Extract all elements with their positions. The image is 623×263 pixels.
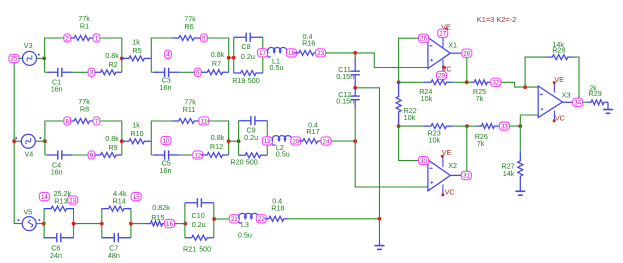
node Q junction ground bbox=[378, 217, 382, 221]
resistor R12 bbox=[201, 153, 229, 158]
wire R27 to ground bbox=[519, 185, 521, 191]
svg-text:24: 24 bbox=[323, 138, 330, 145]
svg-text:10k: 10k bbox=[404, 113, 416, 122]
label X1 bbox=[448, 40, 457, 49]
node 32 bbox=[491, 78, 501, 86]
wire R26 wire bbox=[467, 125, 477, 127]
node 28 bbox=[462, 49, 472, 57]
node 5 bbox=[201, 34, 208, 42]
svg-text:17: 17 bbox=[259, 50, 266, 57]
wire X1 output bbox=[450, 52, 461, 54]
svg-text:21: 21 bbox=[231, 216, 238, 223]
node 6 bbox=[194, 68, 201, 76]
resistor R27 bbox=[518, 152, 523, 185]
wire block4 to C9 block bbox=[229, 140, 239, 142]
svg-text:0.5u: 0.5u bbox=[238, 230, 252, 239]
resistor R9 bbox=[95, 153, 122, 158]
wire node32 to X3 minus bbox=[501, 82, 538, 87]
label L1 bbox=[272, 57, 280, 66]
capacitor C4 bbox=[48, 150, 73, 159]
svg-text:15: 15 bbox=[133, 194, 140, 201]
node 3 bbox=[88, 68, 95, 76]
wire V3 to block1 bbox=[37, 57, 45, 59]
label R18 bbox=[271, 204, 284, 213]
label R9 value 0.8k bbox=[105, 134, 119, 143]
capacitor C10 bbox=[185, 198, 214, 207]
label C6 bbox=[51, 244, 60, 253]
label C7 bbox=[109, 244, 118, 253]
label X3 bbox=[562, 91, 571, 100]
label R13 value 25.2k bbox=[54, 189, 72, 198]
label C3 value 16n bbox=[160, 83, 172, 92]
svg-text:V3: V3 bbox=[24, 41, 33, 50]
wire C11C12 mid to ground rail bbox=[355, 88, 379, 219]
svg-text:R20: R20 bbox=[230, 158, 243, 167]
wire blockB to R15 bbox=[131, 223, 147, 225]
label R28 value 14k bbox=[552, 40, 564, 49]
svg-text:R28: R28 bbox=[552, 45, 565, 54]
source V4 bbox=[15, 134, 41, 148]
resistor R14 bbox=[102, 206, 131, 211]
capacitor C5 bbox=[154, 150, 179, 159]
wire node34 to R29 bbox=[583, 101, 587, 103]
node J junction C9 left bbox=[237, 139, 241, 143]
wire node33 to junction bbox=[510, 125, 521, 127]
label VC X2 bbox=[445, 188, 455, 197]
label R27 bbox=[501, 162, 514, 171]
resistor R15 bbox=[147, 221, 167, 226]
label R16 bbox=[302, 38, 315, 47]
resistor R7 bbox=[201, 70, 229, 75]
wire block2 row1 frame bbox=[151, 38, 228, 72]
capacitor C6 bbox=[44, 233, 73, 242]
label V5 bbox=[24, 207, 33, 216]
label R25 value 7k bbox=[476, 94, 484, 103]
resistor R11 bbox=[173, 119, 201, 124]
node 19 bbox=[262, 137, 272, 145]
svg-text:32: 32 bbox=[492, 80, 499, 87]
wire R25 wire bbox=[467, 81, 471, 83]
label R24 value 10k bbox=[421, 94, 433, 103]
resistor R23 bbox=[424, 124, 453, 129]
node 29 bbox=[437, 71, 447, 79]
label R10 value 1k bbox=[132, 121, 140, 130]
svg-text:0.8k: 0.8k bbox=[105, 51, 119, 60]
label R19 value 500 bbox=[248, 76, 260, 85]
label VE X2 bbox=[442, 148, 452, 157]
svg-text:19: 19 bbox=[264, 138, 271, 145]
label R14 bbox=[113, 196, 126, 205]
svg-text:16n: 16n bbox=[160, 83, 172, 92]
resistor R22 bbox=[396, 82, 401, 126]
svg-text:33: 33 bbox=[501, 123, 508, 130]
label K1 K2 gains bbox=[477, 15, 516, 24]
label R12 value 0.8k bbox=[211, 133, 225, 142]
node N junction blockB right bbox=[129, 222, 133, 226]
svg-text:9: 9 bbox=[90, 152, 94, 159]
label R24 bbox=[419, 87, 432, 96]
label C1 bbox=[52, 77, 61, 86]
resistor R10 bbox=[122, 139, 152, 144]
svg-text:26: 26 bbox=[420, 36, 427, 43]
wire R23 rail bbox=[399, 125, 467, 127]
svg-text:VE: VE bbox=[554, 75, 564, 84]
node S junction rail left bbox=[397, 80, 401, 84]
label VE X3 bbox=[554, 75, 564, 84]
label C11 value 0.15n bbox=[336, 72, 354, 81]
svg-text:R7: R7 bbox=[212, 59, 221, 68]
svg-text:16: 16 bbox=[166, 221, 173, 228]
svg-text:R10: R10 bbox=[130, 129, 143, 138]
wire block1 row1 frame bbox=[45, 38, 122, 72]
svg-text:10: 10 bbox=[163, 138, 170, 145]
label R15 value 0.82k bbox=[152, 203, 170, 212]
node B junction block1 right bbox=[120, 57, 124, 61]
wire blockA frame bbox=[44, 209, 73, 238]
svg-text:34: 34 bbox=[574, 100, 581, 107]
wire block4 row2 top right bbox=[207, 120, 229, 122]
label R5 value 1k bbox=[132, 38, 140, 47]
resistor R19 bbox=[234, 71, 263, 76]
label R11 value 77k bbox=[184, 98, 196, 107]
resistor R5 bbox=[122, 56, 152, 61]
label R11 bbox=[183, 105, 196, 114]
wire block4 row2 frame bbox=[151, 121, 228, 155]
wire X2 output bbox=[450, 174, 461, 176]
wire node28 down to rail bbox=[466, 58, 468, 83]
node D junction C8 left bbox=[232, 56, 236, 60]
svg-text:R2: R2 bbox=[108, 60, 117, 69]
label VC X3 bbox=[555, 113, 565, 122]
node 7 bbox=[93, 117, 100, 125]
label R29 value 2k bbox=[589, 83, 597, 92]
svg-text:R19: R19 bbox=[232, 76, 245, 85]
node 13 bbox=[68, 196, 78, 204]
svg-text:10k: 10k bbox=[429, 136, 441, 145]
wire C10 to node21 bbox=[214, 218, 229, 220]
wire V5 to blockA bbox=[36, 223, 44, 225]
node T junction X1 out bbox=[465, 80, 469, 84]
capacitor C1 bbox=[48, 68, 73, 77]
svg-text:R11: R11 bbox=[183, 105, 196, 114]
svg-text:R21: R21 bbox=[183, 245, 196, 254]
node 9 bbox=[88, 151, 95, 159]
svg-text:0.2u: 0.2u bbox=[241, 52, 255, 61]
wire block1 row1 bottom bbox=[45, 71, 89, 73]
pin VE X3 bbox=[553, 81, 556, 92]
node 17 bbox=[258, 49, 268, 57]
svg-text:27: 27 bbox=[439, 31, 446, 38]
label R23 value 10k bbox=[429, 136, 441, 145]
node A junction V3 bbox=[42, 57, 46, 61]
resistor R20 bbox=[239, 153, 268, 158]
wire block3 row2 bottom bbox=[45, 154, 89, 156]
wire node25 to V3 bbox=[19, 57, 23, 59]
svg-text:5: 5 bbox=[202, 35, 206, 42]
label R12 bbox=[210, 142, 223, 151]
wire node23 to X1 bbox=[326, 53, 428, 68]
label R28 bbox=[552, 45, 565, 54]
label R16 value 0.4 bbox=[303, 32, 313, 41]
label R18 value 0.4 bbox=[272, 196, 282, 205]
label R20 value 500 bbox=[246, 158, 258, 167]
label R22 bbox=[404, 106, 417, 115]
node C junction block2 right bbox=[227, 56, 231, 60]
wire C10 block frame bbox=[185, 203, 214, 238]
wire node26 to R24 rail bbox=[399, 38, 420, 82]
node 18 bbox=[287, 49, 297, 57]
node 2 bubble bbox=[64, 34, 71, 42]
svg-text:0.5u: 0.5u bbox=[270, 63, 284, 72]
label C9 bbox=[246, 125, 255, 134]
wire node22 to ground junction bbox=[288, 218, 380, 220]
node 12 bbox=[193, 151, 203, 159]
label C9 value 0.2u bbox=[244, 133, 258, 142]
label R8 value 77k bbox=[78, 97, 90, 106]
wire node31 up to rail bbox=[466, 126, 468, 171]
op-amp X2 bbox=[428, 160, 450, 191]
label R25 bbox=[473, 87, 486, 96]
node 26 bbox=[419, 34, 429, 42]
pin VC X1 bbox=[443, 60, 446, 72]
svg-text:R12: R12 bbox=[210, 142, 223, 151]
wire V to node30 bbox=[399, 126, 420, 160]
svg-text:6: 6 bbox=[196, 70, 200, 77]
resistor R24 bbox=[424, 80, 453, 85]
svg-text:14k: 14k bbox=[503, 169, 515, 178]
wire ground stem bbox=[379, 219, 381, 239]
label V3 bbox=[24, 41, 33, 50]
label R9 bbox=[108, 143, 117, 152]
node 31 bbox=[461, 171, 471, 179]
resistor R18 bbox=[265, 216, 289, 221]
svg-text:VC: VC bbox=[555, 113, 565, 122]
svg-text:R1: R1 bbox=[80, 22, 89, 31]
node P junction C10 right bbox=[212, 217, 216, 221]
label R13 bbox=[54, 196, 67, 205]
wire blockA to blockB bbox=[74, 223, 102, 225]
label L1 value 0.5u bbox=[270, 63, 284, 72]
svg-text:24n: 24n bbox=[50, 251, 62, 260]
label X2 bbox=[448, 161, 457, 170]
svg-text:18: 18 bbox=[288, 50, 295, 57]
node 23 bbox=[316, 49, 326, 57]
svg-text:R18: R18 bbox=[271, 204, 284, 213]
svg-text:0.5u: 0.5u bbox=[276, 149, 290, 158]
svg-text:R17: R17 bbox=[306, 127, 319, 136]
ground GND2 bbox=[515, 191, 525, 195]
ground GND3 bbox=[603, 110, 613, 114]
capacitor C12 bbox=[351, 88, 360, 108]
capacitor C9 bbox=[239, 116, 268, 125]
resistor R6 bbox=[173, 36, 201, 41]
node 25 bbox=[9, 54, 19, 62]
svg-text:20: 20 bbox=[292, 138, 299, 145]
svg-text:0.8k: 0.8k bbox=[211, 133, 225, 142]
svg-text:7k: 7k bbox=[476, 94, 484, 103]
node 22 bbox=[256, 215, 266, 223]
label L3 bbox=[241, 220, 249, 229]
wire K to X2 plus bbox=[355, 141, 428, 187]
node I junction block4 right bbox=[227, 139, 231, 143]
node 21 bbox=[229, 215, 239, 223]
label C4 bbox=[52, 160, 61, 169]
svg-text:0.8k: 0.8k bbox=[105, 134, 119, 143]
node 8 bbox=[64, 117, 71, 125]
node F junction rail V4 bbox=[12, 139, 16, 143]
svg-text:2: 2 bbox=[65, 35, 69, 42]
wire rail to V4 bbox=[14, 140, 21, 142]
label L2 value 0.5u bbox=[276, 149, 290, 158]
node V junction R23 left bbox=[397, 124, 401, 128]
wire blockB frame bbox=[102, 209, 131, 238]
inductor L2 bbox=[272, 136, 292, 146]
wire R24 rail bbox=[399, 81, 467, 83]
svg-text:7k: 7k bbox=[477, 139, 485, 148]
svg-text:0.15n: 0.15n bbox=[336, 72, 354, 81]
resistor R28 bbox=[547, 55, 574, 60]
label R15 bbox=[151, 213, 164, 222]
resistor R17 bbox=[299, 139, 322, 144]
svg-text:23: 23 bbox=[317, 50, 324, 57]
resistor R2 bbox=[95, 70, 122, 75]
label VE X1 bbox=[441, 22, 451, 31]
svg-text:48n: 48n bbox=[108, 251, 120, 260]
svg-text:16n: 16n bbox=[51, 84, 63, 93]
node K junction C12 bottom bbox=[353, 139, 357, 143]
wire block2 row1 bottom bbox=[151, 71, 195, 73]
svg-text:R14: R14 bbox=[113, 196, 126, 205]
op-amp X3 bbox=[538, 86, 562, 118]
node L junction V5 right bbox=[42, 222, 46, 226]
svg-text:K1=3 K2=-2: K1=3 K2=-2 bbox=[477, 15, 516, 24]
resistor R8 bbox=[70, 119, 95, 124]
label R6 value 77k bbox=[184, 15, 196, 24]
label R20 bbox=[230, 158, 243, 167]
label R6 bbox=[184, 22, 193, 31]
svg-text:0.82k: 0.82k bbox=[152, 203, 170, 212]
svg-text:0.2u: 0.2u bbox=[244, 133, 258, 142]
resistor R26 bbox=[477, 124, 500, 129]
svg-text:X3: X3 bbox=[562, 91, 571, 100]
label VC X1 bbox=[442, 64, 452, 73]
wire to X3 plus bbox=[520, 115, 538, 126]
svg-text:R9: R9 bbox=[108, 143, 117, 152]
label R27 value 14k bbox=[503, 169, 515, 178]
svg-text:R13: R13 bbox=[54, 196, 67, 205]
inductor L1 bbox=[267, 47, 287, 57]
label C5 value 16n bbox=[160, 166, 172, 175]
node 34 bbox=[573, 98, 583, 106]
wire X3 output bbox=[563, 101, 573, 103]
node 14 bbox=[39, 193, 49, 201]
node 15 bbox=[131, 193, 141, 201]
wire block4 row2 bottom bbox=[151, 154, 195, 156]
label R5 bbox=[132, 46, 141, 55]
wire block2 row1 top right bbox=[207, 37, 229, 39]
node 24 bbox=[321, 137, 331, 145]
node X junction R27 top bbox=[518, 124, 522, 128]
svg-text:V4: V4 bbox=[25, 150, 34, 159]
svg-text:C10: C10 bbox=[192, 211, 205, 220]
label R1 bbox=[80, 22, 89, 31]
svg-text:C8: C8 bbox=[241, 42, 250, 51]
wire input rail left bbox=[14, 63, 22, 224]
label R7 bbox=[212, 59, 221, 68]
label R21 value 500 bbox=[199, 245, 211, 254]
svg-text:V5: V5 bbox=[24, 207, 33, 216]
wire below C12 bbox=[354, 108, 356, 141]
pin VC X3 bbox=[553, 111, 556, 123]
wire block2 to C8 block bbox=[229, 57, 234, 59]
svg-text:13: 13 bbox=[69, 197, 76, 204]
svg-text:R29: R29 bbox=[589, 89, 602, 98]
wire node24 to C12 junction bbox=[331, 140, 355, 142]
wire above C11 bbox=[354, 53, 356, 60]
node 1 bbox=[93, 34, 100, 42]
label C12 value 0.15n bbox=[336, 97, 354, 106]
label C11 bbox=[338, 65, 351, 74]
wire R29 to ground bbox=[607, 102, 609, 109]
svg-text:0.8k: 0.8k bbox=[211, 50, 225, 59]
svg-text:R16: R16 bbox=[302, 38, 315, 47]
svg-text:0.15n: 0.15n bbox=[336, 97, 354, 106]
node 16 bbox=[165, 220, 175, 228]
label C8 bbox=[241, 42, 250, 51]
svg-text:R15: R15 bbox=[151, 213, 164, 222]
label R19 bbox=[232, 76, 245, 85]
wire R28 loop bbox=[525, 57, 579, 102]
source V3 bbox=[23, 51, 40, 65]
capacitor C11 bbox=[351, 58, 360, 88]
svg-text:500: 500 bbox=[248, 76, 260, 85]
label R1 value 77k bbox=[78, 14, 90, 23]
label V4 bbox=[25, 150, 34, 159]
svg-text:VE: VE bbox=[442, 148, 452, 157]
ground GND1 bbox=[375, 239, 385, 250]
pin VC X2 bbox=[441, 185, 444, 197]
resistor R16 bbox=[295, 50, 319, 55]
svg-text:500: 500 bbox=[246, 158, 258, 167]
label C10 value 0.2u bbox=[192, 220, 206, 229]
label C10 bbox=[192, 211, 205, 220]
label C1 value 16n bbox=[51, 84, 63, 93]
svg-text:VC: VC bbox=[445, 188, 455, 197]
node E junction C11 top bbox=[353, 51, 357, 55]
source V5 bbox=[17, 217, 40, 231]
label R10 bbox=[130, 129, 143, 138]
op-amp X1 bbox=[428, 38, 450, 69]
label R26 value 7k bbox=[477, 139, 485, 148]
label R2 bbox=[108, 60, 117, 69]
label R2 value 0.8k bbox=[105, 51, 119, 60]
wire V4 to block3 bbox=[35, 140, 45, 142]
node 4 bbox=[165, 50, 172, 58]
label R22 value 10k bbox=[404, 113, 416, 122]
wire C8 block frame bbox=[234, 37, 263, 73]
label R17 value 0.4 bbox=[308, 121, 318, 130]
svg-text:16n: 16n bbox=[51, 167, 63, 176]
wire block3 row2 frame bbox=[45, 121, 122, 155]
svg-text:11: 11 bbox=[201, 118, 208, 125]
node 20 bbox=[291, 137, 301, 145]
capacitor C8 bbox=[234, 33, 263, 42]
svg-text:30: 30 bbox=[420, 158, 427, 165]
label C12 bbox=[338, 90, 351, 99]
node O junction C10 left bbox=[183, 222, 187, 226]
node W junction X2 out bbox=[465, 124, 469, 128]
label R21 bbox=[183, 245, 196, 254]
